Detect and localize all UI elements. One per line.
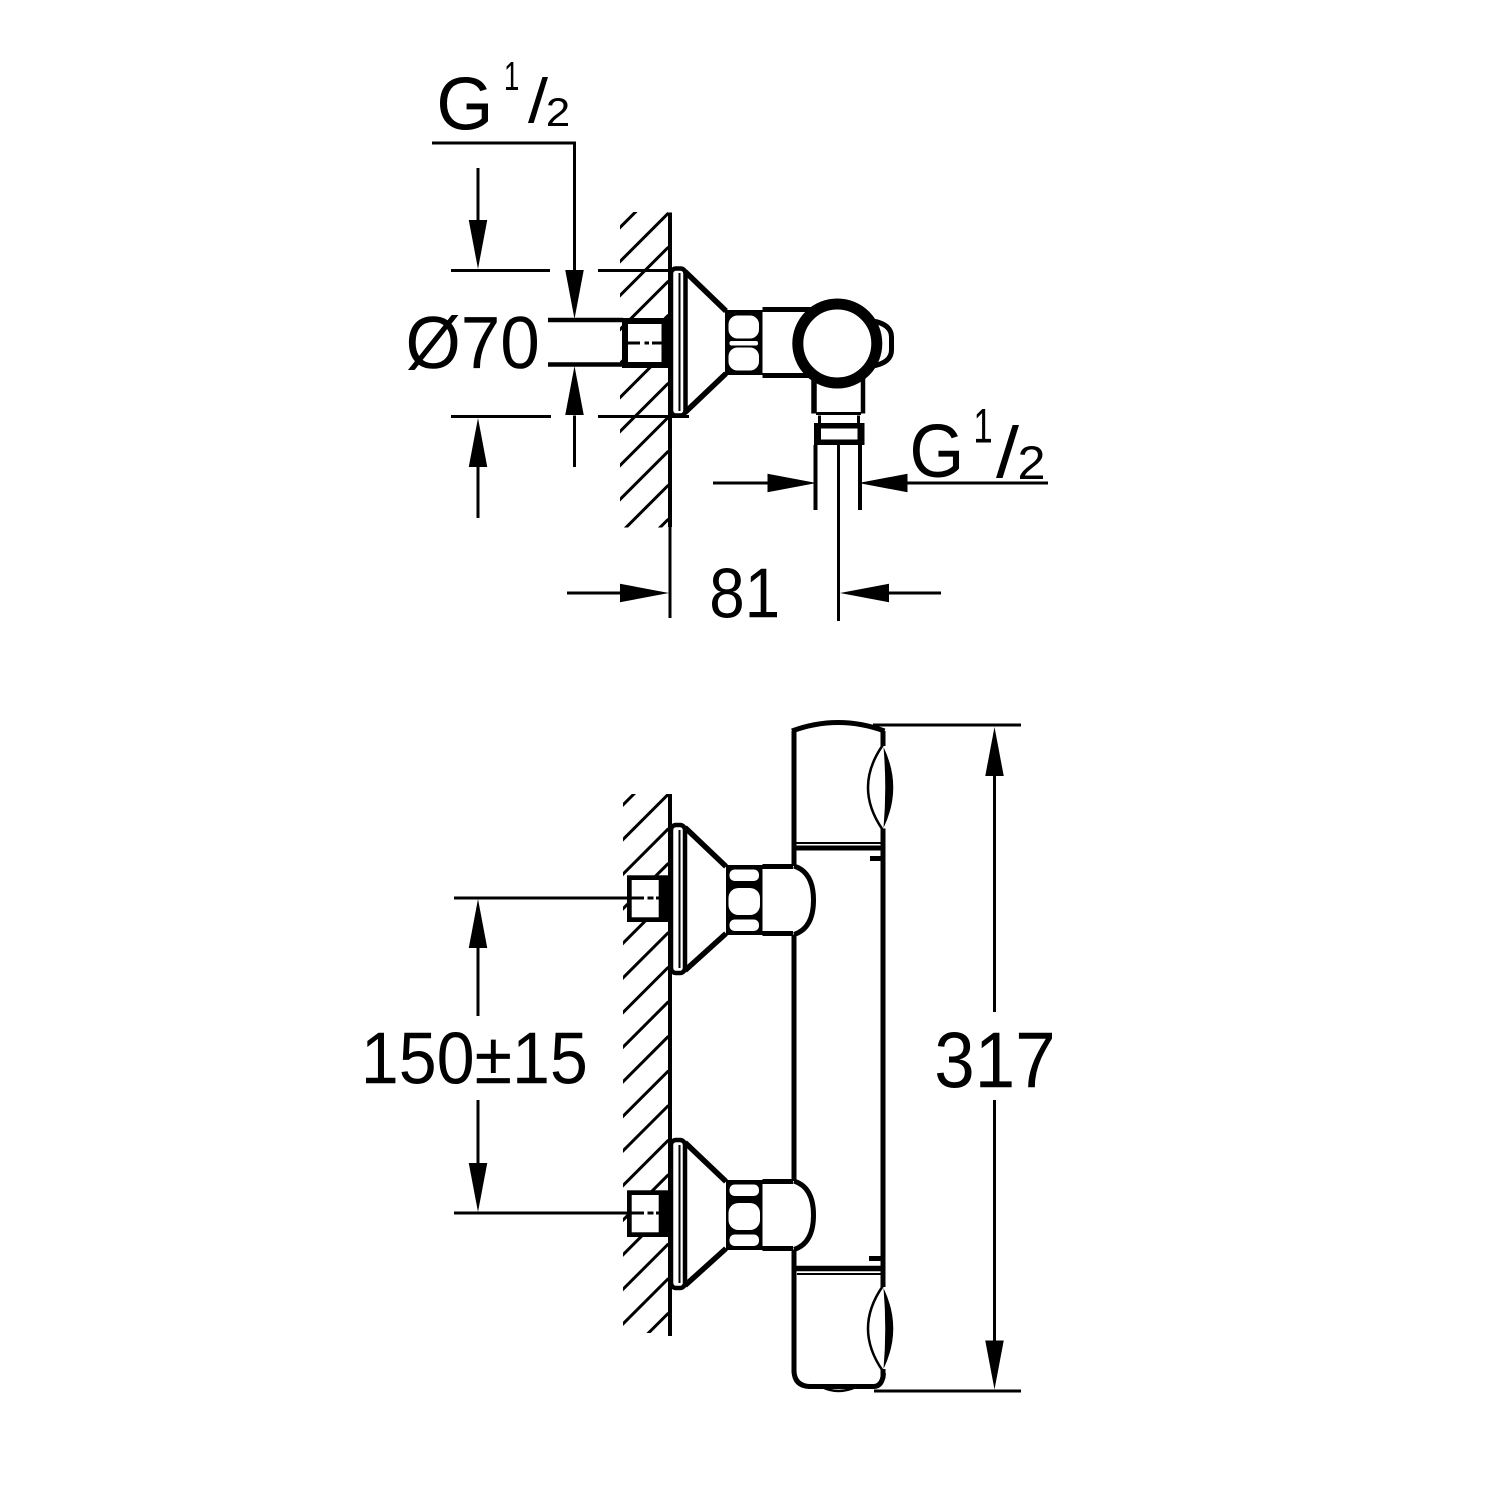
dimension text 150±15	[366, 1032, 585, 1084]
hose centerline	[837, 445, 840, 621]
top tick	[870, 856, 883, 861]
body left edge	[792, 731, 797, 866]
escutcheon flange (top view)	[671, 269, 686, 416]
dimension 150±15 arrows	[469, 899, 488, 948]
grip tab right of head	[873, 321, 892, 366]
dimension 81	[567, 592, 622, 595]
label underline	[432, 142, 576, 145]
outlet below head	[811, 378, 817, 414]
wall union square (top view)	[622, 318, 669, 368]
hex nut upper (bottom view)	[726, 865, 763, 935]
wall union square lower (bottom view)	[627, 1190, 669, 1237]
leader line down to pipe	[573, 143, 576, 270]
wall hatch (bottom view)	[620, 759, 669, 1361]
body bottom edge	[794, 1371, 884, 1387]
dimension text 317	[937, 1032, 1052, 1088]
dimension G1/2 hose	[713, 482, 770, 485]
escutcheon cone upper	[685, 828, 726, 867]
cap top arc	[792, 723, 885, 732]
lower arrow to pipe bottom	[565, 366, 584, 415]
dimension 150±15 extent lines	[454, 897, 644, 900]
hose walls	[814, 445, 818, 510]
bottom divider	[792, 1266, 883, 1272]
boss cylinder upper	[763, 864, 794, 869]
dimension Ø70 extent lines	[451, 269, 550, 272]
escutcheon flange lower	[671, 1140, 685, 1288]
top cap divider	[796, 842, 881, 844]
escutcheon flange upper	[671, 825, 685, 973]
label G 1/2 (top left)	[440, 77, 488, 130]
escutcheon cone lower	[685, 1143, 726, 1182]
dimension text 81	[712, 568, 777, 618]
wall face (bottom view)	[668, 794, 672, 1336]
wall union square upper (bottom view)	[627, 875, 669, 922]
dimension text Ø70	[408, 315, 537, 370]
label G 1/2 (right)	[913, 424, 959, 478]
escutcheon cone (top view)	[685, 272, 726, 312]
valve housing (top view)	[763, 307, 813, 312]
boss cylinder lower	[763, 1179, 794, 1184]
thermostat head (top view)	[798, 304, 877, 383]
supply pipe stub (top view)	[548, 318, 623, 323]
wall hatch (top view)	[618, 179, 669, 570]
hex nut (top view)	[725, 310, 763, 375]
bottom grip lens	[868, 1287, 883, 1371]
wall face (top view)	[668, 213, 672, 528]
bottom tick	[869, 1256, 883, 1261]
dimension 317 extent lines	[873, 724, 1021, 727]
top grip lens	[868, 746, 883, 830]
hex nut lower (bottom view)	[726, 1180, 763, 1250]
dimension 317 line and arrows	[985, 727, 1004, 776]
dimension Ø70 arrows	[477, 168, 480, 220]
centerline dash-dot	[625, 342, 640, 345]
body right edge	[881, 731, 886, 746]
